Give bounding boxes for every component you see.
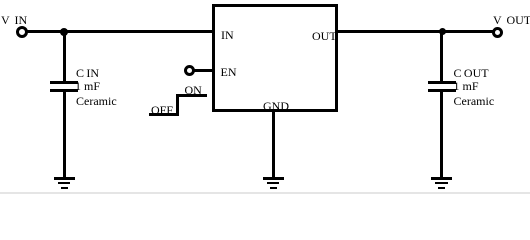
bottom border line: [0, 192, 530, 194]
switch waveform ON level: [176, 94, 207, 97]
op-amp/regulator U1 box: [212, 4, 338, 112]
wire VIN to IN pin: [26, 30, 213, 33]
wire input node to CIN: [63, 31, 66, 82]
terminal VOUT: [492, 27, 503, 38]
node VOUT label: [493, 14, 530, 26]
wire CIN to ground: [63, 92, 66, 178]
pin label EN: [221, 66, 237, 78]
terminal EN: [184, 65, 195, 76]
junction node output: [439, 28, 447, 36]
label CIN value: [0, 0, 530, 1]
junction node input: [60, 28, 68, 36]
capacitor CIN: [0, 0, 530, 1]
label OFF: [151, 104, 173, 116]
capacitor COUT: [0, 0, 530, 1]
node VIN label: [1, 14, 27, 26]
ground (GND pin): [0, 0, 530, 1]
switch waveform OFF level: [149, 113, 179, 116]
pin label OUT: [312, 30, 337, 42]
ground (COUT): [0, 0, 530, 1]
label COUT value: [0, 0, 530, 1]
wire output node to COUT: [440, 31, 443, 82]
switch waveform edge: [176, 94, 179, 115]
terminal VIN: [16, 26, 28, 38]
wire OUT pin to VOUT: [336, 30, 493, 33]
wire EN pin: [194, 69, 213, 72]
pin label GND: [263, 100, 289, 112]
wire COUT to ground: [440, 92, 443, 178]
pin label IN: [221, 29, 234, 41]
ground (CIN): [0, 0, 530, 1]
label ON: [185, 84, 202, 96]
wire GND pin to ground: [272, 110, 275, 177]
